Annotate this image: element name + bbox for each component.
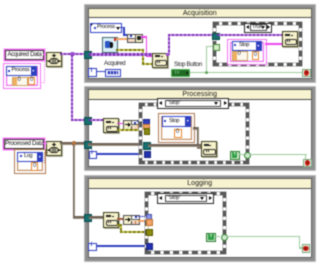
Obtain Queue icon U1 — [46, 52, 62, 67]
loop stop terminal (Logging) — [302, 244, 311, 253]
cluster constant Stop (pink frame, in case) — [227, 39, 267, 66]
tunnel: queue1 into Acquisition loop — [84, 51, 92, 59]
label Acquired — [104, 61, 125, 67]
wire: T to tunnel green (Logging) — [214, 236, 220, 237]
case structure (Acquisition) — [213, 22, 302, 66]
boolean constant T (Processing) — [230, 151, 240, 160]
numeric constant 0 (orange) — [28, 77, 35, 86]
wire: unbundle out orange — [137, 125, 144, 127]
Processing title bar — [89, 90, 311, 100]
wire: enqueue out to case (purple) — [168, 34, 170, 55]
tunnel olive (Logging) — [146, 229, 153, 236]
tunnel green (Processing case out) — [244, 152, 251, 159]
Dequeue Element icon — [103, 118, 119, 133]
wire: i to indicator (blue) — [96, 71, 105, 72]
wire: queue2 branch into Logging (brown) — [73, 216, 88, 219]
boolean constant T (Logging) — [206, 233, 216, 242]
numeric constant 0 (spin) — [12, 77, 28, 87]
while loop Logging frame — [84, 175, 316, 263]
enum constant Stop — [232, 41, 262, 51]
wire: dequeue to unbundle (brown-red) — [117, 218, 124, 220]
wire: unbundle out orange (Logging) — [138, 220, 146, 222]
wire: unbundle out blue (Logging) — [138, 216, 145, 217]
numeric constant 0 (orange, in case) — [252, 51, 260, 61]
iteration terminal i (Logging) — [88, 243, 97, 252]
wire: queue1 branch into Processing (purple) — [71, 119, 87, 121]
tunnel blue (enum) — [143, 119, 150, 126]
wire: queue2 tunnel to case (brown) — [88, 143, 144, 146]
wire: dequeue to unbundle (magenta) — [117, 123, 124, 125]
case selector True — [244, 23, 272, 33]
tunnel: queue2 into Logging loop — [84, 214, 92, 222]
junction queue2 — [72, 141, 77, 146]
tunnel: queue1 into Processing loop — [84, 117, 92, 125]
unbundle node — [123, 120, 139, 130]
Logging title bar — [89, 179, 311, 189]
tunnel lavender (enum, Logging) — [146, 214, 153, 221]
case structure (Processing) — [139, 103, 249, 164]
wire: unbundle out blue — [137, 121, 144, 122]
enum constant Process — [6, 66, 37, 76]
enum constant Log — [17, 152, 43, 162]
enum control Process (in loop) — [90, 23, 122, 33]
numeric constant 0 (orange) — [31, 162, 38, 171]
case structure (Logging) — [145, 192, 226, 254]
Enqueue Element icon (in case) — [282, 31, 298, 47]
tunnel blue i — [144, 151, 151, 158]
Enqueue Element icon (Processing case) — [201, 141, 217, 158]
while loop Processing frame — [84, 86, 316, 172]
numeric indicator Acquired — [105, 69, 121, 77]
wire: cluster2 to obtain queue 2 (brown dotted) — [44, 152, 48, 163]
wire: queue into enqueue (brown) — [148, 144, 201, 147]
Enqueue Element icon (loop) — [152, 53, 168, 68]
wire: purple inside case — [217, 34, 282, 36]
tunnel orange — [143, 124, 150, 131]
label Stop Button — [174, 62, 202, 68]
wire: bundle out (magenta) — [141, 36, 147, 38]
loop stop terminal (Processing) — [303, 159, 312, 168]
wire: queue (purple) tunnel to enqueue — [89, 53, 152, 55]
wire: cluster1 to obtain queue (pink dotted) — [40, 57, 45, 83]
wire: DAQ to bundle (orange) — [116, 38, 127, 40]
wire: green to stop (Logging) — [227, 236, 300, 237]
tunnel teal queue2 — [143, 142, 151, 150]
tunnel blue i (Logging) — [146, 243, 153, 250]
tunnel green (Logging case out) — [221, 234, 229, 242]
wire: cluster to enqueue (brown) — [193, 127, 199, 130]
numeric constant 0 (spin, in case) — [232, 51, 248, 61]
wire: T to tunnel (green) — [239, 154, 244, 155]
tunnel olive — [144, 128, 151, 135]
boolean control Stop Button terminal — [171, 69, 190, 77]
cluster constant: Log enum + numeric (brown frame) — [14, 149, 46, 174]
wire: queue2 out (brown) horizontal — [60, 142, 90, 145]
wire: queue1 out (purple) horizontal — [60, 53, 90, 55]
cluster constant Stop (brown frame, in Processing case) — [158, 113, 195, 143]
wire: queue2 tunnel to dequeue (brown) — [89, 216, 104, 219]
case selector "Stop" (Logging) — [157, 193, 214, 204]
wire: i to case (blue) — [97, 153, 145, 154]
tunnel: queue2 into Processing loop — [84, 141, 92, 149]
wire: green to stop terminal (Processing) — [250, 154, 307, 155]
wire: queue1 tunnel to dequeue (purple) — [89, 119, 103, 121]
iteration terminal i — [88, 68, 97, 77]
label Acquired Data — [5, 50, 44, 61]
numeric constant 0 (orange, Processing case) — [174, 129, 182, 138]
Dequeue Element icon (Logging) — [103, 212, 119, 228]
Acquisition title bar — [89, 9, 311, 19]
wire: queue1 branch down (purple) — [71, 55, 73, 119]
wire: label1 to obtain queue (pink) — [43, 54, 47, 55]
wire: label2 to obtain queue 2 (pink) — [42, 143, 47, 144]
while loop Acquisition frame — [84, 4, 316, 83]
wire: enum to bundle (blue) — [120, 27, 125, 28]
iteration terminal i (Processing) — [89, 151, 98, 160]
wire: stop button green — [190, 72, 303, 73]
Obtain Queue icon U2 — [46, 141, 62, 156]
tunnel orange (Logging) — [146, 219, 153, 226]
bundle node — [127, 34, 143, 44]
wire: dequeue error out (olive, Logging) — [117, 224, 120, 226]
loop stop terminal (red) — [302, 69, 311, 78]
wire: dequeue error out (olive) — [117, 129, 145, 131]
tunnel: queue into case (teal) — [212, 33, 220, 41]
wire: green up to selector — [206, 46, 207, 72]
junction queue1 — [70, 52, 75, 57]
junction green — [205, 71, 208, 74]
selector terminal (green ?) — [213, 44, 220, 52]
DAQ read icon — [102, 37, 119, 54]
wire: queue2 branch down (brown) — [73, 144, 76, 216]
wire: error (olive dashed) DAQ to enqueue — [116, 49, 143, 51]
wire: i to case blue (Logging) — [96, 245, 146, 246]
label Processed Data — [4, 139, 44, 149]
enum constant Stop (Processing) — [162, 116, 192, 127]
unbundle node (Logging) — [123, 215, 140, 226]
cluster constant: Process enum + numerics (pink frame) — [3, 63, 41, 89]
case selector "Stop" (Processing) — [157, 98, 229, 109]
wire: cluster to enqueue (pink dashed) — [265, 43, 283, 45]
